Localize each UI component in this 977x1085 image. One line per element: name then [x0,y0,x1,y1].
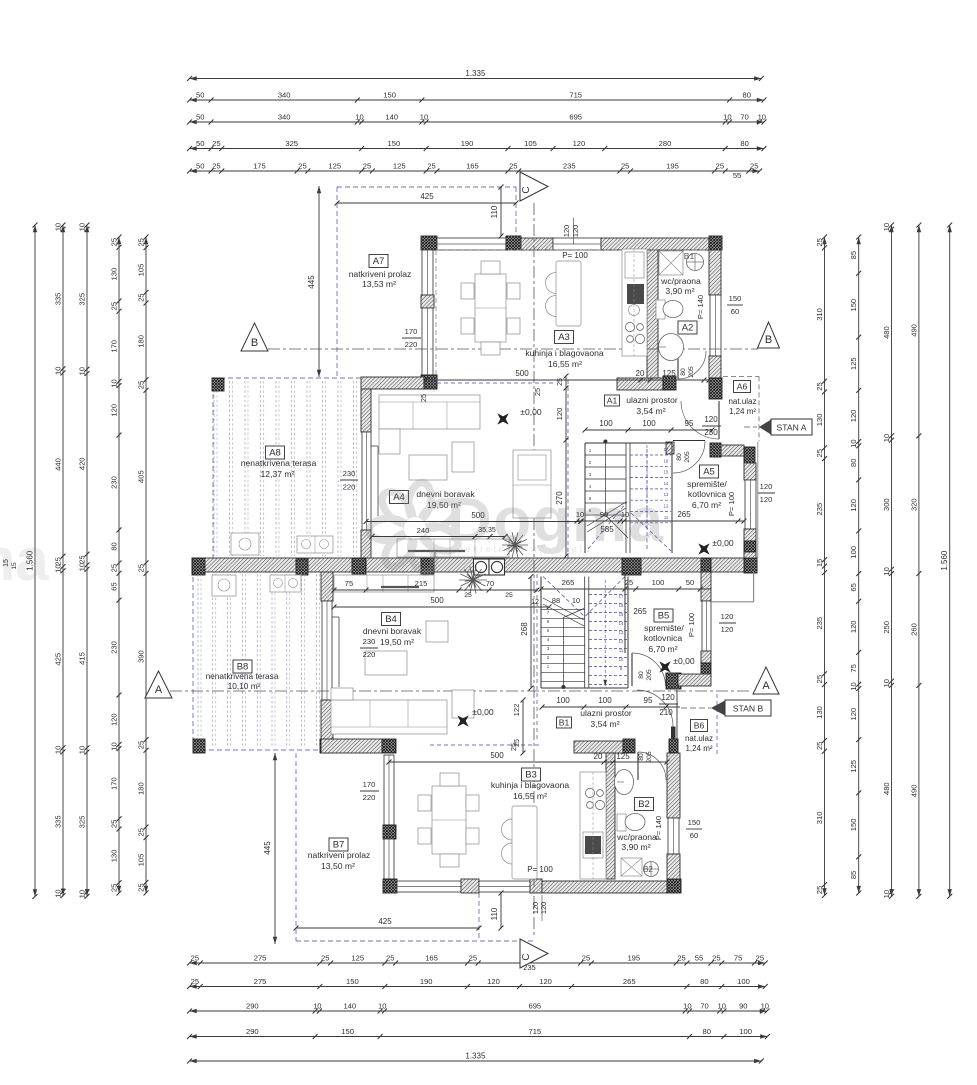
svg-text:250: 250 [882,621,891,634]
svg-text:10: 10 [849,439,858,447]
svg-text:25: 25 [712,953,720,962]
level mark living room B4 [452,710,475,733]
svg-text:150: 150 [346,977,359,986]
svg-text:425: 425 [53,653,62,666]
svg-text:B4: B4 [385,614,397,625]
svg-text:125: 125 [849,357,858,370]
svg-text:50: 50 [196,90,204,99]
wall: between living room B4 and passage B7 [321,739,382,753]
svg-text:120: 120 [539,977,552,986]
flag STAN A [759,420,771,435]
svg-text:265: 265 [677,510,691,519]
svg-text:100: 100 [599,419,613,428]
dimension row 500/20/125 apartment B [389,761,667,763]
room label B1 ulazni prostor [557,717,572,728]
svg-text:100: 100 [652,578,665,587]
dimension row bottom overall 1.335 [190,1060,762,1062]
section marker C top [520,172,548,201]
dimension row 500/20/125 apartment A [426,379,709,381]
svg-text:130: 130 [109,268,118,281]
svg-text:17: 17 [619,594,624,599]
svg-text:10: 10 [53,746,62,754]
svg-text:wc/praona: wc/praona [660,276,701,286]
svg-text:195: 195 [627,953,640,962]
svg-text:10: 10 [355,112,363,121]
thin outline of upper floor overhang near B5 [753,572,755,602]
svg-text:75: 75 [849,664,858,672]
svg-text:kotlovnica: kotlovnica [644,633,682,643]
svg-text:25: 25 [464,592,472,599]
svg-text:425: 425 [420,192,434,201]
svg-text:spremište/: spremište/ [687,479,727,489]
svg-text:180: 180 [136,335,145,348]
svg-text:500: 500 [490,751,504,760]
svg-text:A6: A6 [737,381,748,391]
dimension row bottom row 695 [190,1010,767,1012]
corridor dimension row 100/100/95/120-210 apartment A [585,429,712,431]
svg-text:10: 10 [849,682,858,690]
svg-text:50: 50 [196,161,204,170]
svg-text:25: 25 [77,555,86,563]
corridor dimension row 100/100/95/120-210 apartment B [542,706,680,708]
svg-text:205: 205 [646,751,653,763]
svg-text:10: 10 [53,889,62,897]
svg-text:±0,00: ±0,00 [472,707,494,717]
staircase apartment A: lower flight solid steps [585,454,626,456]
fixture: washing machine in wc B2 [621,858,642,876]
svg-text:25: 25 [109,564,118,572]
svg-text:10: 10 [758,112,766,121]
svg-text:25: 25 [815,742,824,750]
dimension 445 left of B7 [274,753,276,944]
svg-text:70: 70 [700,1001,708,1010]
svg-text:A5: A5 [703,467,715,478]
svg-text:170: 170 [405,327,418,336]
wall: south exterior wall of apartment B [383,879,397,893]
furniture: low table B4 [381,586,419,588]
level mark living room A4 [492,408,515,431]
svg-text:120: 120 [571,225,580,237]
furniture: kitchen counter B3 with stove and sink [580,772,606,879]
svg-text:70: 70 [740,112,748,121]
svg-text:A: A [155,684,163,696]
svg-text:140: 140 [343,1001,356,1010]
fixture: washbasin in wc A2 [659,334,684,361]
door: wc B2 [637,752,639,780]
section marker B right [758,322,780,348]
fixture: laundry sink in wc B2 [644,862,659,877]
pillar in party wall at stairwell B corner [622,558,641,575]
svg-text:3,90 m²: 3,90 m² [621,842,650,852]
svg-text:165: 165 [466,161,479,170]
wall: stairwell edge A [584,443,586,553]
terrace B8 decking and dashed boundary [192,572,194,750]
dimension row bottom row 290-150-715 [190,1036,768,1038]
wall: east exterior wall of apartment A (wc side) [709,250,721,295]
svg-text:3,54 m²: 3,54 m² [590,719,619,729]
svg-text:120: 120 [760,495,773,504]
svg-text:220: 220 [405,340,418,349]
svg-text:80: 80 [702,1027,710,1036]
svg-text:17: 17 [664,447,669,452]
svg-text:25: 25 [509,161,517,170]
svg-text:10: 10 [77,890,86,898]
wall: stairwell edge B [540,577,542,689]
svg-text:25: 25 [298,161,306,170]
svg-text:340: 340 [278,90,291,99]
svg-text:120: 120 [661,693,675,702]
svg-text:85: 85 [849,251,858,259]
room label B7 natkriveni prolaz [329,838,348,851]
svg-text:230: 230 [704,428,718,437]
svg-text:P= 100: P= 100 [727,492,736,516]
svg-text:170: 170 [363,780,376,789]
room label A8 nenatkrivena terasa [266,446,285,459]
svg-text:12: 12 [531,599,539,606]
svg-text:190: 190 [420,977,433,986]
wall: between kitchen A3 and entrance hall A1 [617,378,663,390]
dashed open-plan boundary in apartment B [536,574,538,739]
svg-text:10: 10 [882,434,891,442]
svg-text:80: 80 [743,90,751,99]
watermark fragment at left edge [0,526,49,593]
staircase apartment B: cut break line [543,604,584,626]
svg-text:290: 290 [246,1001,259,1010]
fixture: washing machine in wc A2 [659,251,683,275]
staircase apartment A: dashed walk arrow [646,449,648,549]
staircase apartment B: upper flight dashed steps [589,594,628,596]
furniture: kitchen island A3 [556,261,581,326]
svg-text:25: 25 [136,238,145,246]
svg-text:390: 390 [136,650,145,663]
svg-text:25: 25 [756,953,764,962]
svg-text:220: 220 [363,793,376,802]
wall: north wall of storage A5 [666,442,674,454]
svg-text:natkriveni prolaz: natkriveni prolaz [349,269,412,279]
svg-text:nekretnine u pokretu: nekretnine u pokretu [458,544,592,554]
thin outline of roof overhang east of A5 [757,442,759,558]
dimension 110 at top of A7 [500,187,502,236]
furniture: sofa in living room B4 [331,700,447,734]
dimension row bottom row 275-150-190 [190,986,766,988]
svg-text:120: 120 [849,410,858,423]
svg-text:10: 10 [109,742,118,750]
wall: west exterior wall of kitchen A3 with windows [422,250,433,295]
svg-text:10: 10 [683,1001,691,1010]
svg-text:120: 120 [109,713,118,726]
svg-text:130: 130 [815,706,824,719]
furniture: dining table with chairs in kitchen B3 [432,786,466,854]
dimension column right col 310-235 [824,237,826,895]
svg-text:10: 10 [882,679,891,687]
svg-text:16,55 m²: 16,55 m² [548,359,582,369]
svg-text:80: 80 [740,139,748,148]
svg-text:25: 25 [621,161,629,170]
svg-text:25: 25 [321,953,329,962]
svg-text:220: 220 [343,483,356,492]
wall: central party wall between apartment A and B [192,558,757,572]
svg-text:300: 300 [882,498,891,511]
svg-text:55: 55 [733,171,741,180]
wall: east wall of storage A5 with window [744,447,755,463]
section line A-A horizontal [170,690,752,692]
svg-text:14: 14 [619,621,624,626]
svg-text:25: 25 [191,953,199,962]
svg-text:10: 10 [109,379,118,387]
wall: between terrace A8 and living room A4 (sliding door) [361,389,371,432]
dimension 425 below passage B7 [296,927,479,929]
dimension row top row 50-340-150-715-80 [190,99,764,101]
svg-text:15: 15 [3,559,10,567]
svg-text:120: 120 [760,482,773,491]
wall: south wall of storage B5 [666,673,681,689]
furniture: sideboard at party wall B4 [334,575,434,592]
svg-text:150: 150 [688,818,701,827]
svg-text:C: C [521,186,532,193]
svg-text:65: 65 [849,583,858,591]
svg-text:20: 20 [636,369,645,378]
svg-text:25: 25 [625,578,633,587]
svg-text:25: 25 [815,238,824,246]
svg-text:A1: A1 [607,395,618,405]
svg-text:16: 16 [664,458,669,463]
svg-text:STAN B: STAN B [733,704,764,714]
room label A6 nat.ulaz [734,381,751,393]
svg-text:715: 715 [569,90,582,99]
svg-text:13: 13 [619,630,624,635]
svg-text:75: 75 [345,579,353,588]
svg-text:325: 325 [77,293,86,306]
svg-text:110: 110 [490,205,499,218]
svg-text:25: 25 [557,378,564,386]
dimension column right col 480-300-250-480 [891,225,893,896]
svg-text:205: 205 [684,451,691,463]
svg-text:kuhinja i blagovaona: kuhinja i blagovaona [491,780,570,790]
svg-text:STAN A: STAN A [777,423,807,433]
svg-text:60: 60 [731,307,739,316]
svg-text:ulazni prostor: ulazni prostor [626,395,678,405]
svg-text:500: 500 [515,369,529,378]
svg-text:25: 25 [419,394,428,402]
svg-text:425: 425 [378,917,392,926]
svg-text:260: 260 [909,623,918,636]
furniture: sideboard at party wall A4 [397,539,509,557]
svg-text:490: 490 [909,324,918,337]
svg-text:405: 405 [136,470,145,483]
staircase apartment A: cut break line [587,502,626,526]
svg-text:165: 165 [425,953,438,962]
svg-text:88: 88 [552,596,560,605]
room label B4 dnevni boravak [382,613,401,626]
svg-text:50: 50 [196,112,204,121]
svg-text:120: 120 [849,499,858,512]
svg-text:80: 80 [700,977,708,986]
svg-text:10: 10 [53,564,62,572]
furniture: dining table with chairs in kitchen A3 [475,274,506,342]
flag STAN B [711,701,725,716]
svg-text:100: 100 [849,546,858,559]
svg-text:120: 120 [573,139,586,148]
svg-text:325: 325 [285,139,298,148]
svg-text:A7: A7 [373,256,385,267]
dimension 425 above passage A7 [337,202,516,204]
wall: east wall of storage B5 with window [701,558,711,572]
svg-text:spremište/: spremište/ [644,623,684,633]
svg-text:15: 15 [664,470,669,475]
svg-text:180: 180 [136,782,145,795]
svg-text:265: 265 [623,977,636,986]
svg-text:B: B [765,334,772,346]
svg-text:220: 220 [363,650,376,659]
room label A7 natkriveni prolaz [369,255,388,268]
svg-text:3,90 m²: 3,90 m² [665,286,694,296]
svg-text:280: 280 [659,139,672,148]
svg-text:125: 125 [662,369,676,378]
svg-text:25: 25 [191,977,199,986]
svg-text:±0,00: ±0,00 [712,538,734,548]
level mark storage B5 [654,656,677,679]
dimension row top row with 695 [190,121,764,123]
furniture: coffee table A4 [409,455,447,480]
wall: between kitchen A3 and wc A2 [647,250,658,378]
svg-text:420: 420 [77,457,86,470]
svg-text:nat.ulaz: nat.ulaz [728,397,756,406]
dashed boundary of covered passage B7 [295,753,297,941]
svg-text:105: 105 [136,264,145,277]
dimension column right col 490-320-260-490 [918,225,920,896]
svg-text:25: 25 [505,592,513,599]
dimension 500 living B4 [334,606,549,608]
svg-text:1,24 m²: 1,24 m² [729,407,756,416]
plant symbol B4 [459,566,487,593]
fixture: laundry sink in wc A2 [687,254,704,271]
svg-text:150: 150 [341,1027,354,1036]
svg-text:140: 140 [385,112,398,121]
svg-text:25: 25 [53,557,62,565]
svg-text:500: 500 [471,511,485,520]
svg-text:80: 80 [676,453,683,461]
svg-text:65: 65 [109,582,118,590]
svg-text:290: 290 [246,1027,259,1036]
svg-text:480: 480 [882,326,891,339]
furniture: TV cabinet B4 [426,621,448,642]
section marker A left [145,671,172,698]
svg-text:19,50 m²: 19,50 m² [380,637,414,647]
svg-text:105: 105 [136,854,145,867]
svg-text:3,54 m²: 3,54 m² [636,406,665,416]
svg-text:B1: B1 [684,251,695,261]
svg-text:A2: A2 [682,323,694,334]
dimension row top row 325-150-190 [190,148,764,150]
dimension column left overall 1.560 [34,225,36,897]
furniture: sofa in living room A4 [379,395,480,429]
svg-text:10: 10 [621,510,629,519]
dimension column left col 130-170-230 [118,237,120,893]
svg-text:10: 10 [718,1001,726,1010]
watermark logo flower [368,481,664,576]
svg-text:415: 415 [77,652,86,665]
staircase apartment A: upper flight dashed steps [630,454,671,456]
furniture: armchair A4 [452,442,474,472]
svg-text:80: 80 [680,368,687,376]
svg-text:480: 480 [882,782,891,795]
furniture: terrace B8 sink units [212,575,236,596]
svg-text:A3: A3 [558,332,570,343]
fixture: toilet in wc A2 [656,300,665,319]
svg-text:80: 80 [638,753,645,761]
vertical chain 25/120/270 left of stairs A [565,376,567,556]
door: storage A5 [673,440,705,442]
svg-text:12: 12 [619,639,624,644]
dashed open-plan boundary in apartment A [567,380,569,558]
svg-text:25: 25 [469,953,477,962]
room label A5 spremiste/kotlovnica [700,465,719,478]
section line B-B horizontal [268,348,758,350]
svg-text:100: 100 [598,696,612,705]
svg-text:15: 15 [619,612,624,617]
svg-text:50: 50 [196,139,204,148]
svg-text:120: 120 [539,902,548,914]
svg-text:235: 235 [815,617,824,630]
svg-text:10: 10 [77,746,86,754]
svg-text:11: 11 [619,648,624,653]
svg-text:150: 150 [383,90,396,99]
svg-text:25: 25 [815,675,824,683]
svg-text:25: 25 [427,161,435,170]
svg-text:230: 230 [109,641,118,654]
dashed boundary of entrance niche B6 [716,694,718,756]
room label B5 spremiste/kotlovnica [654,609,673,622]
svg-text:P= 100: P= 100 [527,865,553,874]
stair dimension row 265/25/100/50 apartment B [541,588,701,590]
svg-text:10: 10 [723,112,731,121]
svg-text:210: 210 [659,708,673,717]
dashed boundary of covered passage A7 [337,186,516,188]
dimension row 240/35,35 living A4 [372,536,505,538]
column footings with circles on party wall [474,559,490,575]
svg-text:80: 80 [638,671,645,679]
svg-text:nat.ulaz: nat.ulaz [685,734,713,743]
svg-text:60: 60 [690,831,698,840]
svg-text:25: 25 [109,820,118,828]
room label A4 dnevni boravak [390,491,409,504]
svg-text:P= 100: P= 100 [562,251,588,260]
svg-text:25: 25 [136,564,145,572]
svg-text:125: 125 [393,161,406,170]
furniture: low table A4 [408,550,465,552]
svg-text:445: 445 [307,275,316,289]
svg-text:natkriveni prolaz: natkriveni prolaz [308,850,371,860]
svg-text:310: 310 [815,308,824,321]
dimension column right col 85-150-125 [858,237,860,893]
svg-text:125: 125 [849,760,858,773]
svg-text:215: 215 [415,579,428,588]
svg-text:20: 20 [594,752,603,761]
svg-text:13,50 m²: 13,50 m² [321,861,355,871]
svg-text:75: 75 [734,953,742,962]
svg-text:445: 445 [263,841,272,855]
svg-text:25: 25 [716,161,724,170]
svg-text:10,10 m²: 10,10 m² [228,681,261,691]
svg-text:25: 25 [509,743,518,751]
svg-text:kotlovnica: kotlovnica [688,489,726,499]
svg-text:335: 335 [53,815,62,828]
svg-text:B2: B2 [638,799,650,810]
svg-text:130: 130 [109,850,118,863]
svg-text:440: 440 [53,458,62,471]
furniture: kitchen island B3 [512,806,537,879]
svg-text:25: 25 [363,161,371,170]
